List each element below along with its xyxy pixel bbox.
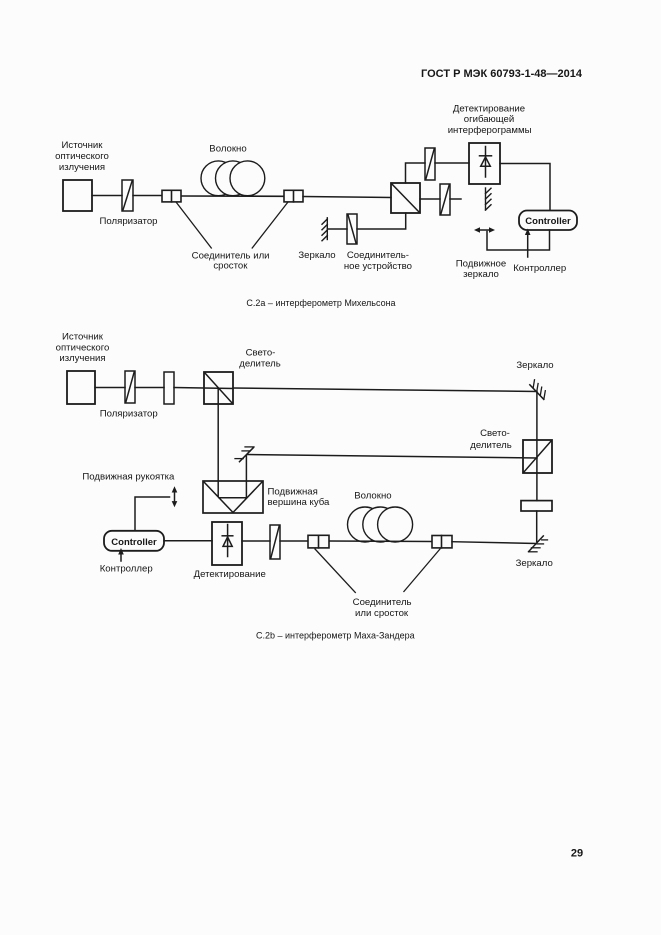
wire plate down to bottom mirror (fig 2) — [536, 511, 538, 542]
wire detector to controller (top right) — [500, 164, 550, 211]
wire P2 to detector — [435, 162, 469, 164]
polarizer P2 above BS1 (fig 1) — [425, 148, 435, 180]
svg-text:Поляризатор: Поляризатор — [100, 216, 158, 227]
svg-text:интерферограммы: интерферограммы — [448, 125, 532, 136]
wire plate through beam splitter 1 (fig 2) — [174, 388, 233, 389]
svg-text:Зеркало: Зеркало — [298, 250, 335, 261]
optical source box (fig 2) — [67, 371, 95, 404]
svg-text:Controller: Controller — [111, 537, 157, 548]
svg-text:делитель: делитель — [470, 440, 511, 451]
svg-text:или сросток: или сросток — [355, 608, 409, 619]
svg-text:С.2b – интерферометр Маха-Занд: С.2b – интерферометр Маха-Зандера — [256, 631, 415, 641]
svg-text:ное устройство: ное устройство — [344, 261, 412, 272]
wire mirror down to corner cube (fig 2) — [245, 456, 247, 498]
beam splitter cube BS1 (fig 1) — [391, 183, 420, 213]
svg-text:излучения: излучения — [59, 353, 105, 364]
corner cube prism (fig 2) — [203, 481, 263, 513]
photodiode symbol (fig 2) — [222, 525, 233, 557]
Controller box (fig 2) — [104, 531, 164, 551]
svg-text:вершина куба: вершина куба — [268, 497, 330, 508]
wire polarizer to lens plate (fig 2) — [135, 387, 164, 389]
polarizer P1 (fig 1) — [122, 180, 133, 211]
wire source to polarizer (fig 2) — [95, 387, 125, 389]
top-right mirror Зеркало (fig 2) — [530, 380, 546, 400]
leader line left (connector 1 to label) — [176, 203, 211, 249]
wire BS1 right to polarizer P3 — [420, 198, 440, 200]
top wire BS1 to top-right mirror (fig 2) — [233, 388, 537, 392]
connector 1 (fig 1) — [162, 190, 181, 202]
label: Свето-делитель (fig 2 upper) — [239, 348, 280, 370]
label: Источник оптического излучения (fig 2) — [56, 332, 110, 365]
arrow up into controller (fig 2) — [118, 548, 124, 561]
svg-text:Контроллер: Контроллер — [100, 564, 153, 575]
svg-text:Зеркало: Зеркало — [516, 360, 553, 371]
beam splitter cube 1 (fig 2) — [204, 372, 233, 404]
svg-text:зеркало: зеркало — [463, 269, 499, 280]
svg-text:Свето-: Свето- — [480, 428, 510, 439]
right vertical wire mirror to BS2 (fig 2) — [536, 392, 538, 501]
svg-text:С.2а – интерферометр Михельсон: С.2а – интерферометр Михельсона — [246, 298, 395, 308]
svg-text:излучения: излучения — [59, 162, 105, 173]
wire controller bottom loop to movable mirror — [487, 230, 550, 250]
svg-text:делитель: делитель — [239, 359, 280, 370]
svg-text:Зеркало: Зеркало — [516, 558, 553, 569]
label: Соединитель или сросток (fig 2) — [353, 597, 412, 619]
polarizer P4 (fig 2) — [125, 371, 135, 403]
movable mirror double arrow (fig 1) — [474, 227, 495, 233]
wire connector 4 to bottom mirror (fig 2) — [452, 542, 536, 544]
polarizer P3 right of BS1 (fig 1) — [440, 184, 450, 215]
photodiode symbol (fig 1) — [480, 147, 492, 178]
label: Источник оптического излучения (source, fig 1) — [55, 140, 109, 173]
polarizer P5 (fig 2) — [270, 525, 280, 559]
double vertical arrow movable handle (fig 2) — [172, 486, 178, 507]
svg-text:Контроллер: Контроллер — [513, 263, 566, 274]
label: Подвижное зеркало (fig 1) — [456, 259, 506, 281]
wire BS1 down to corner cube (fig 2) — [217, 389, 219, 496]
svg-text:оптического: оптического — [55, 151, 109, 162]
svg-text:Поляризатор: Поляризатор — [100, 409, 158, 420]
leader line right (connector 4 to label, fig 2) — [404, 549, 440, 592]
fiber coil Волокно (fig 1) — [201, 161, 265, 196]
svg-text:Волокно: Волокно — [209, 144, 246, 155]
arrow up into controller (fig 1) — [525, 229, 531, 258]
wire through fiber (fig 2) — [329, 540, 432, 543]
wire coupling device to mirror — [328, 228, 348, 230]
svg-text:Источник: Источник — [62, 140, 104, 151]
leader line right (connector 2 to label) — [252, 203, 287, 249]
label: Соединитель-ное устройство (fig 1) — [344, 250, 412, 272]
Controller box (fig 1) — [519, 211, 577, 231]
svg-text:Controller: Controller — [525, 216, 571, 227]
middle wire mirror to BS2 (fig 2) — [248, 455, 538, 459]
label: Соединитель или сросток (fig 1) — [192, 250, 270, 271]
fiber coil Волокно (fig 2) — [348, 507, 413, 542]
connector 3 (fig 2) — [308, 535, 329, 548]
connector 2 (fig 1) — [284, 190, 303, 202]
bottom-right mirror Зеркало (fig 2) — [529, 536, 548, 552]
label: Свето-делитель (fig 2 right) — [470, 428, 511, 451]
svg-text:сросток: сросток — [213, 261, 248, 272]
horizontal plate element (fig 2) — [521, 501, 552, 511]
svg-text:Детектирование: Детектирование — [453, 104, 525, 115]
svg-text:Подвижное: Подвижное — [456, 259, 506, 270]
wire source to polarizer — [92, 195, 122, 197]
wire through fiber region — [181, 195, 284, 197]
wire connector 2 to beam splitter — [303, 197, 391, 198]
svg-text:29: 29 — [571, 848, 583, 860]
svg-text:Подвижная: Подвижная — [268, 487, 318, 498]
mirror Зеркало (fig 1) — [322, 218, 327, 241]
svg-text:оптического: оптического — [56, 343, 110, 354]
svg-text:огибающей: огибающей — [464, 114, 514, 125]
svg-text:ГОСТ Р МЭК 60793-1-48—2014: ГОСТ Р МЭК 60793-1-48—2014 — [421, 68, 583, 80]
svg-text:Свето-: Свето- — [246, 348, 276, 359]
label: Детектирование огибающей интерферограммы (fig 1) — [448, 104, 532, 137]
fixed mirror hatch below detector (fig 1) — [486, 188, 492, 210]
svg-text:Детектирование: Детектирование — [194, 569, 266, 580]
detector box with photodiode (fig 1) — [469, 143, 500, 184]
svg-text:Подвижная рукоятка: Подвижная рукоятка — [82, 472, 175, 483]
wire controller 2 up to handle (fig 2) — [135, 497, 170, 531]
label: Подвижная вершина куба (fig 2) — [268, 487, 330, 509]
connector 4 (fig 2) — [432, 536, 452, 548]
svg-text:Волокно: Волокно — [354, 491, 391, 502]
wire stub right of P3 — [450, 198, 461, 200]
wire controller to detector (fig 2) — [164, 540, 212, 542]
wire detector to polarizer (fig 2) — [242, 540, 270, 542]
svg-text:Соединитель-: Соединитель- — [347, 250, 409, 261]
detector box with photodiode (fig 2) — [212, 522, 242, 565]
beam splitter cube 2 (fig 2) — [523, 440, 552, 473]
wire polarizer to connector 1 — [133, 195, 162, 197]
plain plate element (fig 2) — [164, 372, 174, 404]
leader line left (connector 3 to label, fig 2) — [315, 549, 355, 593]
tilted mirror near corner cube (fig 2) — [235, 447, 254, 462]
wire BS1 top to polarizer P2 — [406, 163, 426, 183]
svg-text:Соединитель: Соединитель — [353, 597, 412, 608]
wire polarizer to connector 3 (fig 2) — [280, 540, 308, 542]
svg-text:Источник: Источник — [62, 332, 104, 343]
coupling device (fig 1) — [347, 214, 357, 244]
optical source box (fig 1) — [63, 180, 92, 211]
wire BS1 bottom to coupling device — [357, 213, 406, 229]
